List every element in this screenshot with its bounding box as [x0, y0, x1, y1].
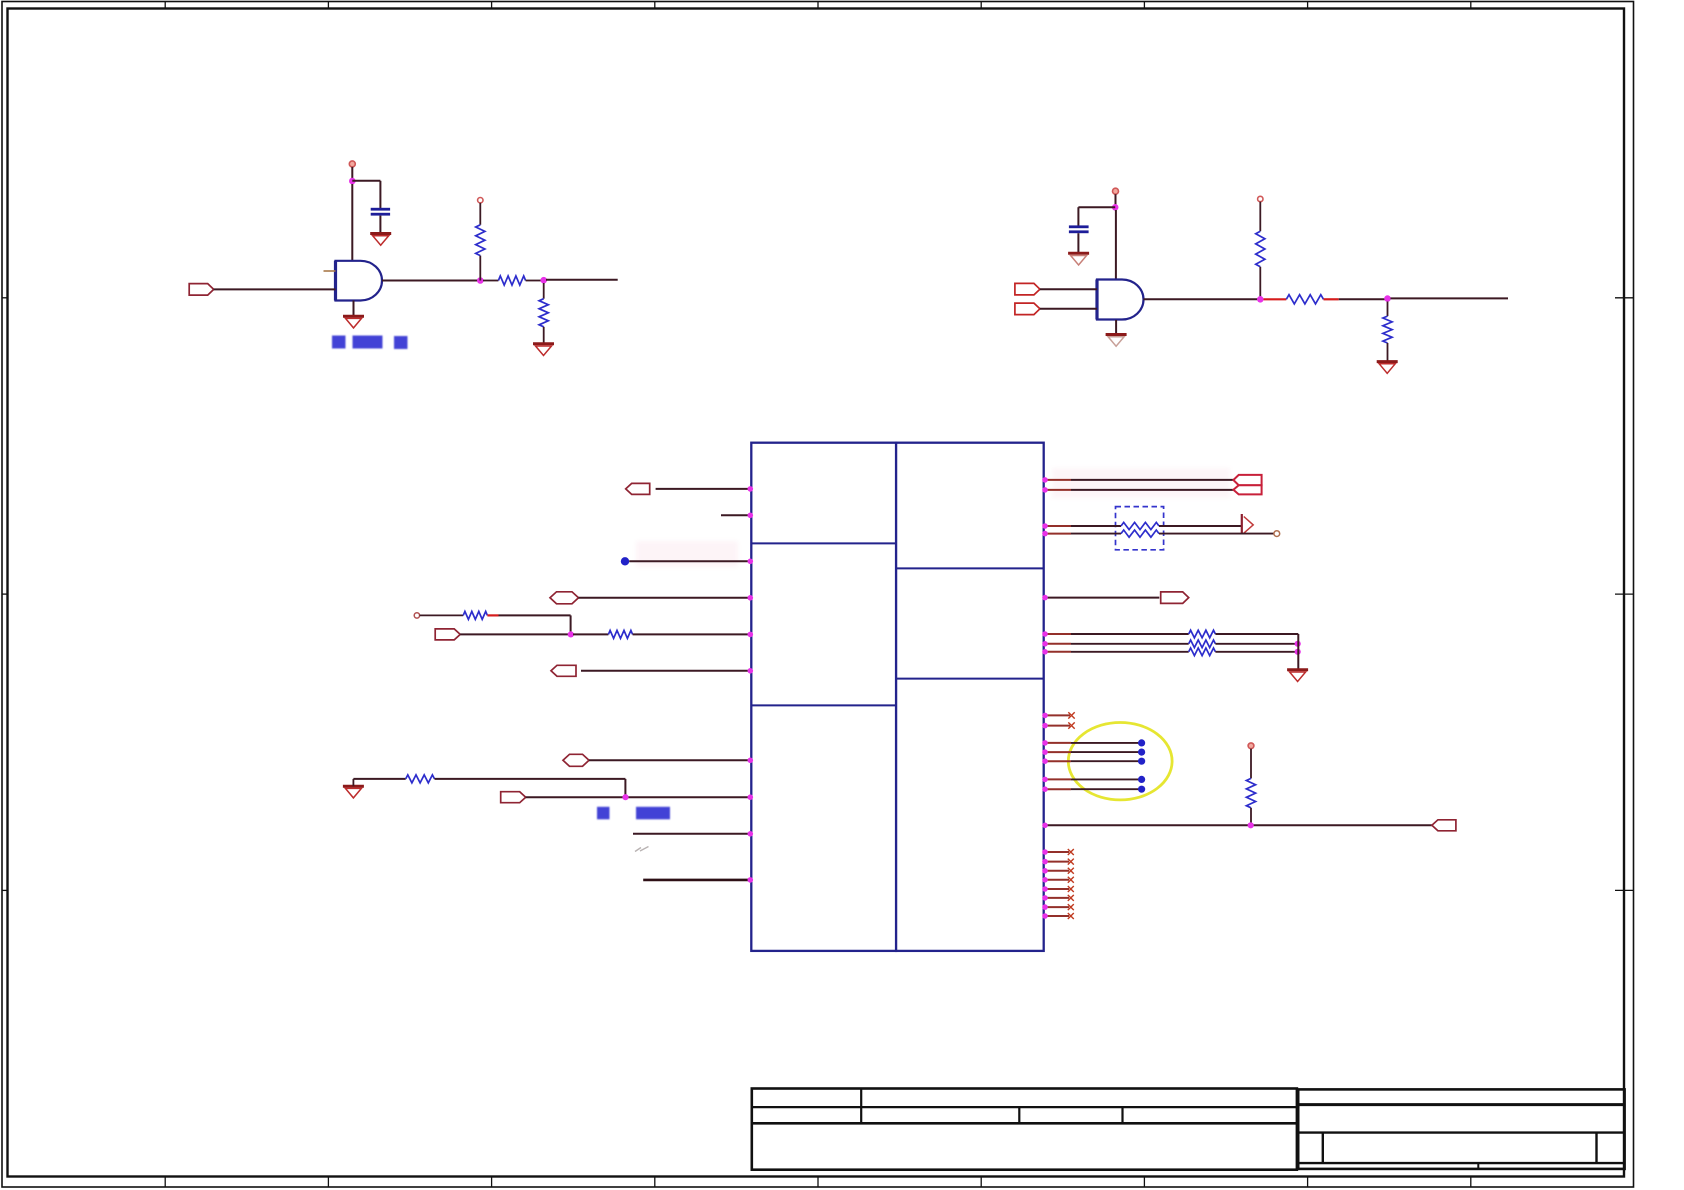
wire IN_A to U3 [656, 486, 754, 492]
power port VCC4 [1258, 196, 1263, 201]
wire VCC1 to gate top [351, 184, 353, 261]
port IN_B [550, 592, 579, 604]
highlight ellipse (yellow) [1068, 723, 1172, 800]
no-connect stub 5 [1042, 868, 1074, 874]
port OUT_C [1432, 820, 1456, 831]
node junction J2 [477, 277, 484, 284]
net stub wire 5 with dot [1042, 786, 1145, 793]
pin dot [748, 632, 754, 638]
buffer symbol end [1242, 514, 1253, 534]
wire U3 to OUT_B [1042, 595, 1159, 601]
ground below U2 [1106, 320, 1127, 346]
ground below R6 [1377, 362, 1398, 374]
resistor R2 series [483, 276, 541, 285]
no-connect stub 6 [1042, 877, 1074, 883]
resistor R6 pull-down [1383, 302, 1392, 362]
no-connect stub 9 [1042, 904, 1074, 910]
port P_IN2 [1015, 283, 1040, 295]
AND gate U1 [336, 261, 383, 301]
title block left table [752, 1089, 1297, 1170]
resistor R13 [1042, 640, 1298, 648]
resistor R9 [353, 775, 625, 795]
node junction J4 [1112, 204, 1119, 211]
no-connect stub 1 [1042, 712, 1075, 718]
net tie junctions [1295, 641, 1301, 655]
no-connect stub 3 [1042, 849, 1074, 855]
faint highlight wash [636, 541, 738, 567]
node junction J3 [540, 277, 547, 284]
IC block U3 right column [896, 443, 1044, 951]
no-connect stub 10 [1042, 913, 1074, 919]
resistor R11 [1042, 530, 1274, 537]
resistor R14 [1042, 648, 1298, 656]
resistor R4 pull-up [1256, 202, 1265, 300]
power port VCC1 [349, 161, 355, 178]
wire U3 to OUT_A lower [1042, 487, 1233, 493]
node junction J5 [1257, 296, 1264, 303]
resistor R10 [1042, 522, 1241, 529]
capacitor C2 [1069, 225, 1089, 252]
resistor R8 [573, 630, 751, 638]
port IN_F [501, 792, 526, 803]
net stub wire 3 with dot [1042, 758, 1145, 765]
label text (blue) under U1 [332, 336, 408, 350]
port IN_A [626, 483, 650, 494]
power port VCC3 [1113, 188, 1119, 204]
terminal circle T2 [1274, 531, 1280, 537]
port IN_D [551, 665, 576, 676]
ground below C1 [370, 234, 391, 246]
port IN_E [563, 754, 589, 766]
ground below C2 [1068, 253, 1089, 265]
resistor R5 series with red leads [1264, 295, 1386, 304]
power port VCC5 [1248, 743, 1254, 749]
resistor R12 [1042, 630, 1298, 638]
node junction J6 [1384, 295, 1391, 302]
wire to U3 pin 9 [633, 831, 753, 837]
label text (blue) left [597, 807, 670, 820]
capacitor C1 [371, 208, 390, 233]
net stub wire 2 with dot [1042, 749, 1145, 756]
title block right table [1298, 1089, 1624, 1169]
wire IN_E to U3 [589, 758, 753, 764]
wire P_IN2 to U2 [1040, 288, 1097, 290]
no-connect stub 8 [1042, 895, 1074, 901]
port OUT_B [1161, 592, 1189, 604]
wire IN_C junction [460, 631, 574, 637]
wire J4 to gate top [1115, 210, 1117, 280]
wire IN_B to U3 [579, 595, 754, 601]
pin stub U3 left 2 [721, 513, 753, 519]
ground below R3 [533, 344, 554, 356]
wire to U3 pin 10 [643, 877, 753, 883]
port P_IN3 [1015, 303, 1040, 315]
port IN_C [435, 629, 460, 640]
wire U3 to OUT_C [1042, 822, 1437, 828]
small gray mark [635, 847, 649, 852]
net stub wire 4 with dot [1042, 776, 1145, 783]
resistor R15 pull-up [1246, 749, 1255, 826]
wire VCC to capacitor [352, 181, 380, 208]
no-connect stub 2 [1042, 722, 1075, 728]
resistor R1 pull-up [476, 203, 485, 281]
resistor R3 pull-down [539, 283, 548, 343]
port P_IN1 [189, 284, 214, 296]
IC block U3 left column [751, 443, 896, 951]
ground left G7 [343, 779, 364, 798]
wire P_IN3 to U2 [1040, 308, 1097, 310]
wire tie down to ground [1297, 634, 1299, 669]
resistor pack dashed box [1116, 507, 1164, 550]
wire J6 to right [1391, 297, 1509, 299]
ground right G8 [1287, 670, 1308, 682]
net stub blue dot [621, 557, 629, 565]
wire blue dot to U3 [629, 559, 753, 565]
faint highlight wash right [1052, 468, 1230, 498]
U1 pin 1 stub [324, 270, 336, 272]
terminal circle T1 [414, 613, 419, 618]
wire U2 output [1144, 298, 1261, 300]
no-connect stub 4 [1042, 859, 1074, 865]
ground below U1 [343, 301, 364, 328]
wire IN_D to U3 [581, 668, 753, 674]
net stub wire 1 with dot [1042, 739, 1145, 746]
power port VCC2 [478, 198, 483, 203]
port OUT_A double arrow [1233, 475, 1261, 495]
wire J3 to right [546, 279, 618, 281]
resistor R7 [420, 611, 571, 631]
AND gate U2 [1097, 280, 1144, 320]
no-connect stub 7 [1042, 886, 1074, 892]
wire P_IN1 to U1 [214, 288, 336, 290]
wire IN_F junction to U3 [526, 794, 753, 800]
node junction J1 [349, 178, 356, 185]
wire U3 to OUT_A upper [1042, 477, 1236, 483]
wire J4 to capacitor C2 [1078, 207, 1115, 225]
wire U1 output [382, 280, 480, 282]
